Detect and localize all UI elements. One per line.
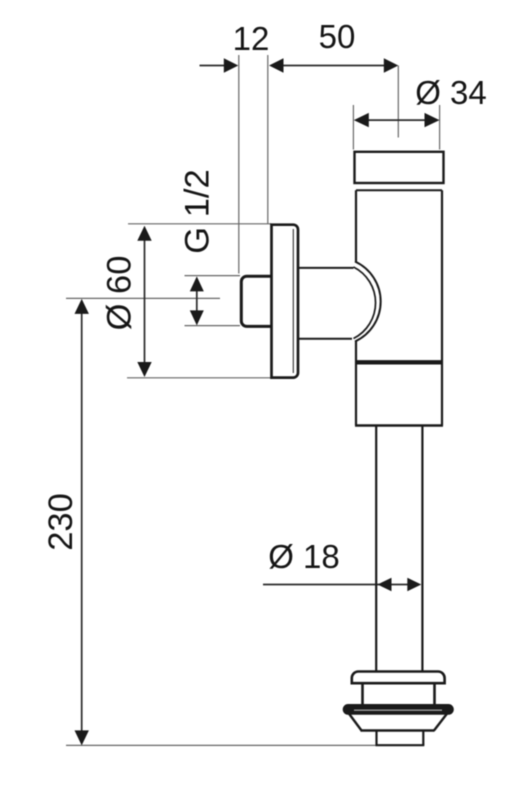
trapezoid right side xyxy=(434,713,448,731)
extension line y=745.4 (230 bottom) xyxy=(66,744,377,746)
valve cap xyxy=(355,152,444,183)
inlet pipe bottom xyxy=(298,338,353,340)
wall flange xyxy=(272,225,299,378)
body left side lower xyxy=(355,341,357,426)
extension line y=325.6 (G1/2 bottom) xyxy=(185,325,241,327)
rim bar xyxy=(344,705,453,713)
dimension line 230 vertical xyxy=(81,313,83,731)
tail bottom edge xyxy=(376,744,425,746)
dimension line Ø18 xyxy=(263,584,409,586)
body bottom edge xyxy=(355,424,443,426)
svg-text:Ø 60: Ø 60 xyxy=(101,256,139,331)
svg-text:Ø 18: Ø 18 xyxy=(268,538,340,575)
tail left wall xyxy=(375,731,377,746)
arrow right tip 439.5,120 xyxy=(425,113,440,127)
trapezoid bottom xyxy=(361,729,435,731)
arrow left tip 377.5,584.5 xyxy=(378,578,392,591)
dimension line Ø60 vertical xyxy=(144,240,146,363)
extension line x=398.3 (pipe centre) xyxy=(397,66,399,138)
neck right xyxy=(433,683,436,705)
arrow down tip 196.8,325.4 xyxy=(190,310,204,325)
neck left xyxy=(361,683,364,705)
svg-text:50: 50 xyxy=(319,18,356,55)
inlet pipe top xyxy=(298,267,354,269)
svg-text:Ø 34: Ø 34 xyxy=(415,74,487,111)
downpipe left wall xyxy=(375,426,377,671)
dimension line Ø34 xyxy=(366,119,427,121)
rim highlight xyxy=(354,709,442,711)
flange inner contour xyxy=(292,229,294,373)
extension line y=377.8 (Ø60 bottom) xyxy=(127,377,271,379)
extension line y=275.6 (G1/2 top) xyxy=(185,275,241,277)
arrow up tip 196.8,276.4 xyxy=(190,276,204,291)
dimension line y=64.3 segment left of 12 xyxy=(200,65,226,67)
tail right wall xyxy=(422,731,424,746)
extension line x=238.8 (12 dim left) xyxy=(238,55,240,274)
arrow left tip 269,64 xyxy=(269,58,284,72)
nose inner curve xyxy=(354,267,376,339)
body right side xyxy=(441,190,443,425)
arrow right tip 398,64 xyxy=(384,58,399,72)
nose outer curve xyxy=(355,262,381,342)
body top edge xyxy=(356,189,442,191)
svg-text:G 1/2: G 1/2 xyxy=(179,169,217,253)
extension line y=298.4 (230 top / centreline) xyxy=(66,297,220,299)
extension line x=353.4 (Ø34 left) xyxy=(352,105,354,150)
extension line y=223.8 (Ø60 top) xyxy=(128,223,271,225)
G1/2 connector xyxy=(241,276,270,326)
dimension line y=64.3 (50 span) xyxy=(282,65,385,67)
stadium flare xyxy=(352,672,445,684)
svg-text:230: 230 xyxy=(42,493,80,551)
downpipe right wall xyxy=(421,426,423,671)
trapezoid left side xyxy=(349,713,362,731)
arrow right tip 238,64 xyxy=(224,58,239,72)
arrow down tip 81.7,745.4 xyxy=(75,730,89,745)
dimension line G1/2 vertical xyxy=(196,291,198,311)
extension line x=439.6 (Ø34 right) xyxy=(439,105,441,150)
arrow down tip 144.5,377 xyxy=(137,362,151,377)
body dark band xyxy=(355,360,443,364)
extension line x=267.8 (wall plane) xyxy=(267,55,269,224)
arrow up tip 144.5,225.8 xyxy=(137,226,151,241)
arrow left tip 353.8,120 xyxy=(354,113,369,127)
arrow right tip 421.3,584.5 xyxy=(407,578,421,591)
svg-text:12: 12 xyxy=(233,20,270,57)
body left side upper xyxy=(355,190,357,262)
arrow up tip 81.7,298.9 xyxy=(75,299,89,314)
